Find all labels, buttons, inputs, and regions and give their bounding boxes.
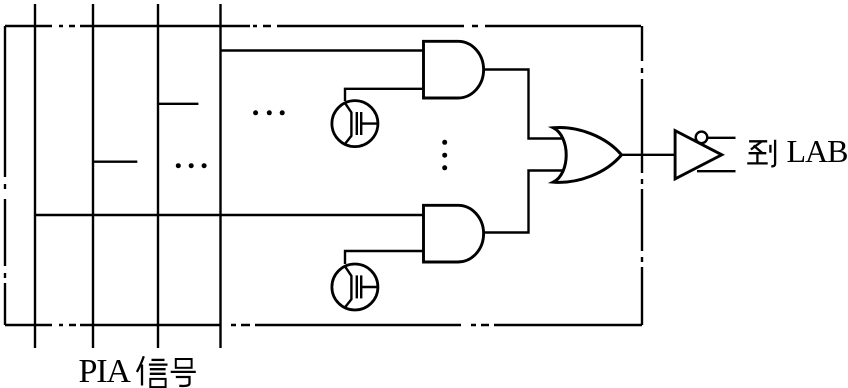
wire stub off PIA line 3 — [158, 103, 198, 105]
EPROM cell 2 (programmable connection, bottom) — [332, 264, 378, 310]
wire PIA line 1 — [34, 4, 36, 348]
ellipsis dots (horizontal, upper) — [253, 110, 285, 115]
inversion bubble on buffer — [696, 132, 708, 144]
wire stub off PIA line 2 — [93, 160, 137, 162]
ellipsis dots (horizontal, lower) — [176, 163, 207, 168]
wire AND2 output to OR bottom input — [483, 171, 562, 233]
ellipsis dots (vertical, between AND gates) — [442, 140, 447, 171]
wire from PIA line 4 to AND1 top input — [221, 49, 424, 51]
OR gate (sum of product terms) — [553, 128, 621, 183]
svg-text:PIA: PIA — [79, 353, 132, 388]
wire from EPROM cell 2 to AND2 bottom input — [345, 251, 424, 264]
wire true output to LAB — [697, 170, 736, 172]
AND gate 1 (top product term) — [424, 41, 484, 98]
wire OR output to inverter — [622, 154, 676, 156]
inverter / polarity buffer U1 — [675, 131, 722, 179]
svg-text:LAB: LAB — [787, 133, 848, 169]
label PIA 信号 (PIA signals) — [79, 353, 196, 388]
EPROM cell 1 (programmable connection, top) — [332, 101, 378, 147]
LAB boundary box (dash-dot frame) — [5, 26, 642, 325]
wire from EPROM cell 1 to AND1 bottom input — [345, 89, 424, 101]
wire PIA line 4 — [219, 4, 221, 348]
wire PIA line 3 — [157, 4, 159, 348]
wire PIA line 2 — [92, 4, 94, 348]
wire AND1 output to OR top input — [484, 70, 563, 139]
wire from PIA line 1 to AND2 top input — [35, 214, 424, 216]
label 到 LAB (to LAB) — [747, 133, 847, 169]
wire inverted output to LAB — [708, 137, 736, 139]
AND gate 2 (bottom product term) — [424, 205, 484, 262]
